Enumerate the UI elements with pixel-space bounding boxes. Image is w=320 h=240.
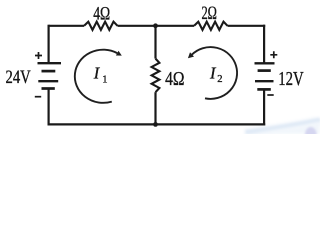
battery 24V plus sign [35, 52, 42, 59]
svg-text:4Ω: 4Ω [93, 4, 110, 25]
svg-text:24V: 24V [6, 68, 32, 88]
node dot top junction [153, 23, 158, 28]
svg-text:2Ω: 2Ω [201, 4, 217, 24]
resistor 2ohm (top right zigzag) [194, 22, 227, 30]
wire: top rail left segment [49, 25, 85, 27]
decorative blue swoosh band (bottom right) [245, 120, 320, 134]
wire: left rail upper [47, 25, 49, 64]
wire: right rail upper [263, 25, 265, 64]
mesh current arrow I1 (clockwise arc) [75, 50, 122, 103]
battery 24V plates [38, 63, 62, 88]
battery 12V minus sign [267, 94, 273, 96]
svg-text:4Ω: 4Ω [165, 68, 184, 90]
wire: middle branch lower [154, 92, 156, 124]
resistor 4ohm (top left zigzag) [84, 22, 117, 30]
label I1 [93, 64, 108, 86]
battery 12V plus sign [270, 51, 277, 58]
svg-text:1: 1 [102, 75, 107, 86]
label I2 [209, 64, 223, 85]
resistor 4ohm (middle vertical zigzag) [152, 59, 160, 93]
wire: top rail right segment [228, 25, 266, 27]
wire: right rail lower [263, 89, 265, 125]
battery 24V minus sign [35, 96, 41, 98]
decorative lavender blob (bottom right corner) [305, 127, 317, 143]
battery 12V plates [255, 63, 275, 89]
svg-text:2: 2 [217, 74, 222, 85]
wire: top rail middle segment [118, 25, 195, 27]
mesh current arrow I2 (counterclockwise arc) [188, 47, 237, 99]
wire: middle branch upper [154, 26, 156, 59]
svg-text:12V: 12V [278, 69, 303, 90]
wire: bottom rail [48, 123, 266, 125]
node dot bottom junction [153, 122, 158, 127]
wire: left rail lower [47, 89, 49, 126]
